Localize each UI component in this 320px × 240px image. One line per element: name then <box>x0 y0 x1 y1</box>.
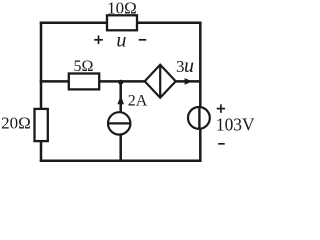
voltage source 103V circle <box>188 107 210 129</box>
node junction dot <box>118 80 123 85</box>
resistor R=10ohm (top) <box>107 15 137 30</box>
svg-text:2A: 2A <box>128 93 148 110</box>
wire 2A branch vertical <box>119 81 122 160</box>
label plus of u <box>94 36 103 45</box>
label minus of u <box>139 39 147 41</box>
wire right rail <box>199 23 202 108</box>
current source horizontal bar <box>108 122 130 124</box>
current source I=2A circle <box>108 112 130 134</box>
dependent source internal bar <box>159 65 161 98</box>
wire bottom rail <box>41 159 200 162</box>
label plus of 103V <box>217 104 225 112</box>
svg-text:u: u <box>184 55 194 77</box>
svg-text:20Ω: 20Ω <box>1 113 31 132</box>
wire top rail <box>41 22 200 25</box>
svg-text:10Ω: 10Ω <box>107 0 137 17</box>
resistor R=20ohm (left) <box>35 109 48 141</box>
svg-text:5Ω: 5Ω <box>74 58 94 75</box>
arrowhead 2A (up) <box>117 96 124 105</box>
wire right rail lower <box>199 129 202 161</box>
wire middle branch <box>41 80 145 83</box>
arrowhead 3u branch (right) <box>185 78 193 85</box>
wire left rail <box>40 23 43 161</box>
resistor R=5ohm (middle) <box>69 74 99 90</box>
dependent source diamond 3u <box>145 65 176 98</box>
wire diamond to right rail <box>176 80 201 83</box>
svg-text:u: u <box>116 29 126 51</box>
label minus of 103V <box>218 143 225 145</box>
svg-text:103V: 103V <box>216 114 255 134</box>
voltage source through-wire <box>198 106 200 129</box>
